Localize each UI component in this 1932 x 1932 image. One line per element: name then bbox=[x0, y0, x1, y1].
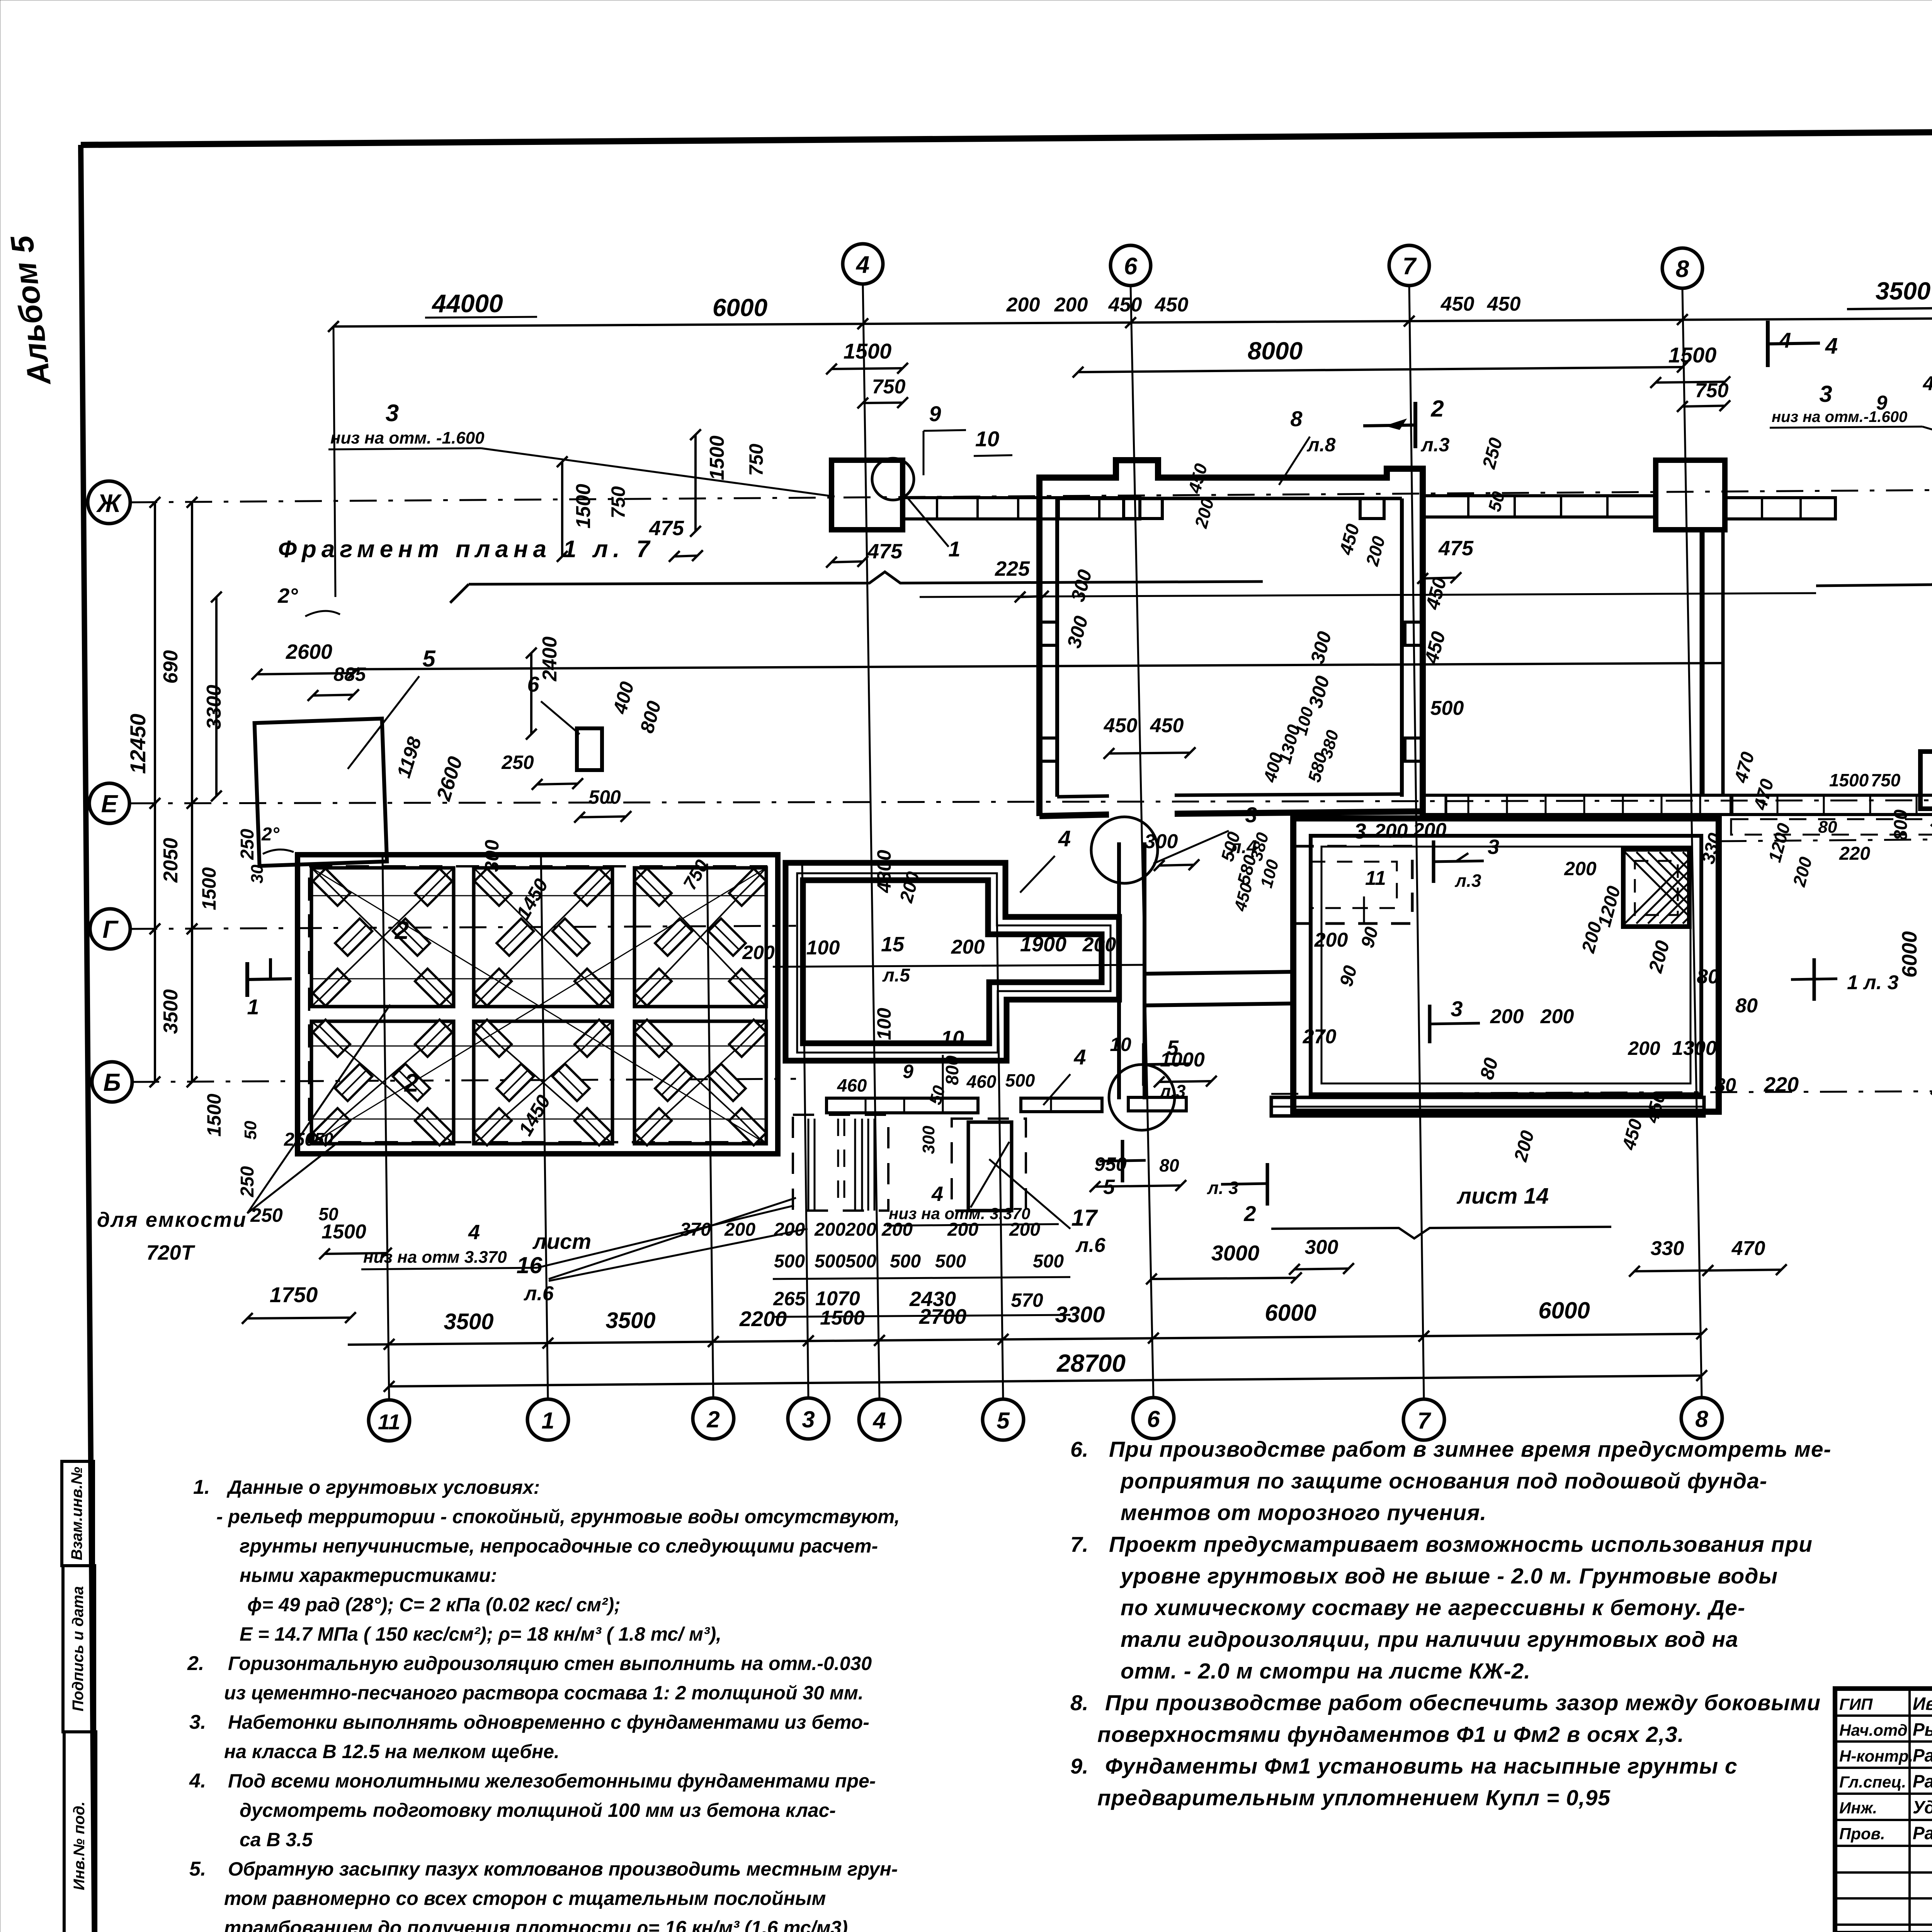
svg-text:поверхностями фундаментов Ф1 и: поверхностями фундаментов Ф1 и Фм2 в ося… bbox=[1097, 1722, 1684, 1747]
svg-text:9: 9 bbox=[1876, 392, 1888, 414]
axis 7 top bbox=[1389, 245, 1429, 286]
room C second inner thin bbox=[1321, 847, 1690, 1083]
axis line 8 bbox=[1682, 288, 1702, 1398]
thin pad axis lines across grid bbox=[311, 895, 766, 896]
axis line A bbox=[1271, 1091, 1932, 1094]
upper-right wall strip axes 7-8 bbox=[1423, 496, 1656, 517]
svg-text:трамбованием до получения пл: трамбованием до получения плотности ρ= 1… bbox=[224, 1917, 848, 1932]
axis 6 bottom bbox=[1133, 1398, 1174, 1439]
svg-text:роприятия по защите основан: роприятия по защите основания под подошв… bbox=[1120, 1469, 1767, 1493]
svg-text:3: 3 bbox=[1819, 381, 1832, 407]
svg-text:100: 100 bbox=[873, 1008, 895, 1040]
svg-text:1500: 1500 bbox=[572, 484, 595, 529]
svg-text:л.6: л.6 bbox=[1075, 1234, 1106, 1257]
svg-text:са В 3.5: са В 3.5 bbox=[240, 1829, 313, 1850]
svg-text:1300: 1300 bbox=[1672, 1037, 1717, 1060]
axis line B bbox=[132, 1079, 796, 1082]
svg-text:Рашевский: Рашевский bbox=[1913, 1823, 1932, 1843]
axis 6 top bbox=[1111, 245, 1151, 286]
room B inner thin border bbox=[797, 873, 1111, 1053]
svg-text:460: 460 bbox=[837, 1075, 867, 1095]
svg-text:1: 1 bbox=[948, 537, 960, 561]
svg-text:л. 3: л. 3 bbox=[1207, 1178, 1238, 1198]
room A (axes 6-7 big room) bbox=[1039, 460, 1423, 498]
svg-text:Набетонки выполнять одновремен: Набетонки выполнять одновременно с фунда… bbox=[228, 1711, 869, 1733]
svg-text:Гл.спец.: Гл.спец. bbox=[1839, 1773, 1906, 1791]
axis 1 bottom bbox=[527, 1399, 568, 1440]
svg-text:1750: 1750 bbox=[270, 1282, 318, 1307]
svg-text:1500: 1500 bbox=[1829, 770, 1869, 790]
svg-text:460: 460 bbox=[966, 1071, 997, 1092]
svg-text:5: 5 bbox=[422, 646, 436, 672]
svg-text:8: 8 bbox=[1695, 1406, 1708, 1432]
svg-text:При производстве работ в зимне: При производстве работ в зимнее время пр… bbox=[1109, 1437, 1832, 1462]
svg-text:2°: 2° bbox=[277, 584, 298, 607]
svg-text:6: 6 bbox=[527, 672, 539, 696]
svg-text:3: 3 bbox=[1451, 997, 1463, 1021]
svg-text:1.: 1. bbox=[193, 1476, 210, 1498]
strips between rooms A/C along E axis right part bbox=[1731, 795, 1932, 815]
svg-text:950: 950 bbox=[1094, 1153, 1127, 1175]
small pad detail 6 bbox=[577, 728, 602, 770]
svg-text:том равномерно со всех стор: том равномерно со всех сторон с тщательн… bbox=[224, 1888, 826, 1909]
room C outer walls bbox=[1293, 818, 1719, 1112]
svg-text:3000: 3000 bbox=[1211, 1241, 1260, 1265]
svg-text:690: 690 bbox=[160, 650, 182, 684]
svg-text:250: 250 bbox=[237, 829, 258, 860]
svg-text:л.3: л.3 bbox=[1159, 1081, 1186, 1101]
svg-text:из цементно-песчаного раствора: из цементно-песчаного раствора состава 1… bbox=[224, 1682, 864, 1704]
svg-text:- рельеф территории - спокойны: - рельеф территории - спокойный, грунтов… bbox=[216, 1506, 900, 1527]
svg-text:При производстве работ обеспеч: При производстве работ обеспечить зазор … bbox=[1105, 1690, 1821, 1715]
junction circle lower bbox=[1109, 1065, 1175, 1130]
axis line 7 bbox=[1409, 286, 1424, 1399]
svg-text:450: 450 bbox=[1487, 293, 1521, 315]
svg-text:16: 16 bbox=[517, 1252, 543, 1278]
section mark 5 bbox=[1142, 1043, 1146, 1086]
svg-text:50: 50 bbox=[315, 1129, 333, 1148]
svg-text:для емкости: для емкости bbox=[97, 1208, 247, 1231]
svg-text:Под всеми монолитными железобе: Под всеми монолитными железобетонными фу… bbox=[228, 1770, 876, 1792]
svg-text:на класса В 12.5 на мелком: на класса В 12.5 на мелком щебне. bbox=[224, 1741, 560, 1762]
top dimension line 44000/6000 bbox=[333, 316, 1932, 327]
svg-text:200: 200 bbox=[1082, 934, 1116, 956]
svg-text:7.: 7. bbox=[1070, 1532, 1088, 1556]
svg-text:2: 2 bbox=[1430, 396, 1444, 422]
axis B left bbox=[92, 1062, 132, 1102]
svg-text:4: 4 bbox=[1779, 328, 1791, 352]
svg-text:200: 200 bbox=[1540, 1005, 1574, 1028]
svg-text:3300: 3300 bbox=[203, 685, 225, 730]
svg-text:по химическому составу не а: по химическому составу не агрессивны к б… bbox=[1121, 1595, 1745, 1620]
svg-text:6: 6 bbox=[1124, 253, 1138, 280]
svg-text:80: 80 bbox=[1159, 1155, 1179, 1175]
tank foundation inner dashed rect bbox=[309, 866, 766, 1142]
axis 8 top bbox=[1662, 248, 1702, 288]
svg-text:2200: 2200 bbox=[739, 1307, 787, 1331]
svg-text:500: 500 bbox=[890, 1251, 921, 1272]
svg-text:Взам.инв.№: Взам.инв.№ bbox=[68, 1467, 85, 1560]
axis 4 bottom bbox=[859, 1399, 900, 1440]
svg-text:500: 500 bbox=[588, 786, 621, 808]
svg-text:Е = 14.7 МПа ( 150 кгс/см²);: Е = 14.7 МПа ( 150 кгс/см²); ρ= 18 кн/м³… bbox=[240, 1623, 721, 1645]
svg-text:450: 450 bbox=[1440, 293, 1475, 315]
svg-text:200: 200 bbox=[774, 1219, 805, 1240]
svg-text:ными характеристиками:: ными характеристиками: bbox=[240, 1565, 497, 1586]
hatched pad in room C bbox=[1623, 849, 1689, 927]
svg-text:Фрагмент плана 1 л. 7: Фрагмент плана 1 л. 7 bbox=[278, 536, 655, 563]
svg-text:200: 200 bbox=[1009, 1219, 1040, 1240]
svg-text:500: 500 bbox=[845, 1251, 876, 1272]
svg-text:4: 4 bbox=[872, 1408, 886, 1434]
svg-text:2: 2 bbox=[1243, 1201, 1256, 1226]
svg-text:11: 11 bbox=[378, 1410, 400, 1434]
svg-text:дусмотреть подготовку толщин: дусмотреть подготовку толщиной 100 мм из… bbox=[240, 1799, 836, 1821]
svg-text:Нач.отд: Нач.отд bbox=[1839, 1721, 1908, 1739]
svg-text:Рыбкина: Рыбкина bbox=[1913, 1719, 1932, 1740]
room A left wall bbox=[1036, 478, 1043, 816]
section mark 1 left bbox=[245, 962, 249, 997]
2 l.3 mark top (in room C) bbox=[1432, 840, 1435, 883]
svg-text:л.8: л.8 bbox=[1307, 434, 1336, 456]
svg-text:лист: лист bbox=[532, 1229, 591, 1253]
svg-text:4300: 4300 bbox=[873, 850, 895, 893]
svg-text:Б: Б bbox=[103, 1068, 121, 1096]
svg-text:5: 5 bbox=[997, 1408, 1010, 1434]
axis line 11 bbox=[383, 856, 389, 1400]
svg-text:200: 200 bbox=[845, 1219, 876, 1240]
svg-text:330: 330 bbox=[1651, 1237, 1684, 1260]
svg-text:3: 3 bbox=[1488, 835, 1499, 859]
svg-text:5.: 5. bbox=[189, 1858, 206, 1880]
svg-text:200: 200 bbox=[881, 1219, 913, 1240]
svg-text:200: 200 bbox=[814, 1219, 845, 1240]
axis G left bbox=[90, 909, 130, 949]
svg-text:3.: 3. bbox=[189, 1711, 206, 1733]
svg-text:200: 200 bbox=[1314, 929, 1348, 951]
svg-text:Удалова: Удалова bbox=[1913, 1797, 1932, 1817]
svg-text:Рашевский: Рашевский bbox=[1913, 1745, 1932, 1765]
svg-text:1500: 1500 bbox=[198, 867, 220, 910]
svg-text:570: 570 bbox=[1011, 1289, 1043, 1311]
svg-text:28700: 28700 bbox=[1056, 1349, 1126, 1377]
svg-text:450: 450 bbox=[1923, 372, 1932, 395]
svg-text:450: 450 bbox=[1155, 294, 1189, 316]
axis 3 bottom bbox=[788, 1398, 829, 1439]
2 l.3 section mark lower bbox=[1266, 1163, 1269, 1206]
svg-text:80: 80 bbox=[1818, 818, 1837, 837]
svg-text:9.: 9. bbox=[1070, 1754, 1088, 1778]
svg-text:6.: 6. bbox=[1070, 1437, 1088, 1461]
dim line through room B bbox=[773, 965, 1144, 967]
title block outline bbox=[1835, 1689, 1932, 1932]
long diagonal across grid bbox=[311, 868, 766, 1144]
svg-text:2700: 2700 bbox=[919, 1304, 967, 1328]
axis 4 top bbox=[843, 244, 883, 284]
svg-text:8.: 8. bbox=[1070, 1690, 1088, 1715]
svg-text:Пров.: Пров. bbox=[1839, 1825, 1885, 1843]
svg-text:100: 100 bbox=[806, 937, 840, 959]
axis line Zh bbox=[130, 490, 1932, 502]
axis 7 bottom bbox=[1403, 1399, 1444, 1440]
svg-text:3: 3 bbox=[386, 400, 399, 427]
svg-text:8: 8 bbox=[1290, 406, 1303, 431]
svg-text:10: 10 bbox=[975, 427, 999, 451]
svg-text:265: 265 bbox=[773, 1288, 806, 1310]
dim 475 below F1 bbox=[832, 561, 863, 562]
svg-text:450: 450 bbox=[1150, 714, 1184, 737]
svg-text:1500: 1500 bbox=[203, 1094, 225, 1136]
svg-text:3500: 3500 bbox=[160, 989, 182, 1034]
svg-text:200: 200 bbox=[742, 942, 775, 963]
svg-text:750: 750 bbox=[872, 376, 906, 398]
corridor wall horizontal to room C bbox=[1145, 972, 1293, 974]
room A bottom wall bbox=[1039, 815, 1109, 816]
fragment1 bracket line bbox=[469, 572, 1263, 584]
axis line 6 bbox=[1131, 286, 1153, 1398]
svg-text:750: 750 bbox=[607, 486, 629, 519]
svg-text:2400: 2400 bbox=[539, 636, 561, 682]
svg-text:750: 750 bbox=[745, 444, 767, 476]
svg-text:Ж: Ж bbox=[96, 489, 122, 517]
corridor wall vertical between junctions bbox=[1117, 842, 1121, 1099]
svg-text:4: 4 bbox=[855, 252, 869, 278]
axis E left bbox=[89, 783, 129, 823]
svg-text:9: 9 bbox=[903, 1061, 913, 1082]
svg-text:1500: 1500 bbox=[706, 435, 728, 480]
svg-text:750: 750 bbox=[1871, 770, 1901, 790]
svg-text:Рашевский: Рашевский bbox=[1913, 1771, 1932, 1791]
svg-text:Горизонтальную гидроизоляцию с: Горизонтальную гидроизоляцию стен выполн… bbox=[228, 1653, 872, 1674]
svg-text:500: 500 bbox=[1005, 1070, 1035, 1090]
svg-text:200: 200 bbox=[1006, 294, 1040, 316]
svg-text:уровне грунтовых вод не вы: уровне грунтовых вод не выше - 2.0 м. Гр… bbox=[1119, 1564, 1778, 1588]
svg-text:200: 200 bbox=[1628, 1037, 1660, 1059]
room A inner crenels bbox=[1124, 498, 1162, 519]
svg-text:250: 250 bbox=[250, 1204, 283, 1226]
svg-text:Е: Е bbox=[101, 790, 119, 818]
svg-text:500: 500 bbox=[1033, 1251, 1064, 1272]
svg-text:4: 4 bbox=[1058, 826, 1071, 851]
svg-text:300: 300 bbox=[1145, 830, 1178, 853]
svg-text:80: 80 bbox=[1735, 995, 1758, 1017]
svg-text:Н-контр.: Н-контр. bbox=[1839, 1747, 1913, 1765]
svg-text:л.3: л.3 bbox=[1455, 871, 1481, 891]
axis8 vertical wall below square bbox=[1700, 530, 1705, 795]
svg-text:225: 225 bbox=[995, 557, 1030, 580]
svg-text:220: 220 bbox=[1839, 844, 1870, 864]
axis line 2 bbox=[707, 864, 713, 1398]
svg-text:1000: 1000 bbox=[1160, 1049, 1205, 1071]
svg-text:500: 500 bbox=[774, 1251, 805, 1272]
junction circle node 1 bbox=[872, 458, 914, 500]
foundation F1 square axis4 bbox=[832, 460, 903, 530]
svg-text:1 л. 3: 1 л. 3 bbox=[1847, 971, 1899, 994]
svg-text:200: 200 bbox=[951, 936, 985, 958]
svg-text:6000: 6000 bbox=[1538, 1298, 1590, 1323]
svg-text:7: 7 bbox=[1417, 1408, 1431, 1434]
second fragment boundary line bbox=[920, 593, 1816, 597]
svg-text:8: 8 bbox=[1676, 256, 1689, 282]
svg-text:ментов от морозного пучения: ментов от морозного пучения. bbox=[1121, 1500, 1486, 1525]
svg-text:1500: 1500 bbox=[820, 1307, 865, 1329]
bottom strip below room C (A axis) bbox=[1271, 1097, 1704, 1116]
pile group right (17 l.6) bbox=[952, 1119, 1026, 1211]
axis line D bbox=[1719, 839, 1932, 841]
svg-text:7: 7 bbox=[1403, 253, 1417, 280]
dim 8000 bbox=[1078, 367, 1682, 372]
svg-text:9: 9 bbox=[929, 401, 941, 426]
svg-text:50: 50 bbox=[241, 1121, 260, 1139]
bottom chain spans bbox=[348, 1334, 1702, 1345]
svg-text:Проект предусматривает возможн: Проект предусматривает возможность испол… bbox=[1109, 1532, 1813, 1557]
svg-text:1900: 1900 bbox=[1020, 933, 1066, 956]
svg-text:6: 6 bbox=[1147, 1406, 1160, 1432]
strip axis4-6 bbox=[903, 498, 1140, 519]
svg-text:4: 4 bbox=[468, 1221, 480, 1244]
svg-text:3300: 3300 bbox=[1055, 1302, 1105, 1327]
svg-text:800: 800 bbox=[942, 1055, 962, 1085]
axis line 4 bbox=[863, 284, 879, 1399]
axis Zh left bbox=[88, 481, 130, 524]
left dim chain vertical lines bbox=[154, 502, 156, 1082]
svg-text:370: 370 bbox=[680, 1219, 711, 1240]
svg-text:885: 885 bbox=[333, 663, 366, 685]
svg-text:50: 50 bbox=[318, 1204, 338, 1224]
svg-text:л.6: л.6 bbox=[523, 1282, 554, 1305]
svg-text:Обратную засыпку пазух котлова: Обратную засыпку пазух котлованов произв… bbox=[228, 1858, 898, 1880]
svg-text:250: 250 bbox=[237, 1166, 258, 1197]
svg-text:80: 80 bbox=[1714, 1074, 1736, 1096]
svg-text:2050: 2050 bbox=[160, 838, 182, 883]
svg-text:2°: 2° bbox=[261, 824, 280, 845]
title block left signature grid bbox=[1835, 1714, 1932, 1717]
dim droppers bbox=[333, 327, 335, 597]
square pad on E axis right bbox=[1920, 752, 1932, 809]
svg-text:15: 15 bbox=[881, 933, 905, 956]
svg-text:л.3: л.3 bbox=[1421, 434, 1450, 456]
room C dashed sub-room bbox=[1294, 846, 1412, 923]
svg-text:4: 4 bbox=[931, 1182, 943, 1206]
svg-text:Данные о грунтовых условия: Данные о грунтовых условиях: bbox=[226, 1476, 540, 1498]
svg-text:3: 3 bbox=[1354, 819, 1366, 843]
svg-text:Инв.№ под.: Инв.№ под. bbox=[71, 1801, 88, 1890]
small dim lines for 500 row bbox=[773, 1277, 1070, 1279]
E axis strip between room A and room C bbox=[1423, 795, 1732, 815]
svg-text:отм. - 2.0 м смотри на лист: отм. - 2.0 м смотри на листе КЖ-2. bbox=[1121, 1659, 1531, 1684]
room B outline outer bbox=[786, 863, 1119, 1061]
leader to tank label bbox=[247, 1144, 336, 1213]
svg-text:720Т: 720Т bbox=[146, 1241, 195, 1264]
dashed pile cluster left bbox=[793, 1115, 888, 1211]
strip right of axis8 bbox=[1725, 498, 1835, 519]
svg-text:470: 470 bbox=[1731, 1237, 1765, 1260]
section mark 2 l.3 top bbox=[1413, 402, 1417, 448]
svg-text:80: 80 bbox=[1697, 966, 1719, 988]
axis line 5 bbox=[997, 912, 1003, 1399]
svg-text:500: 500 bbox=[935, 1251, 966, 1272]
svg-text:3: 3 bbox=[1245, 803, 1257, 827]
svg-text:475: 475 bbox=[1438, 537, 1474, 560]
svg-text:6000: 6000 bbox=[1898, 931, 1921, 978]
svg-text:3500: 3500 bbox=[1876, 277, 1930, 305]
svg-text:250: 250 bbox=[284, 1129, 315, 1150]
svg-text:6000: 6000 bbox=[1265, 1300, 1316, 1326]
svg-text:Подпись и дата: Подпись и дата bbox=[70, 1586, 87, 1711]
svg-text:200: 200 bbox=[1413, 819, 1447, 842]
svg-text:11: 11 bbox=[1365, 867, 1386, 889]
svg-text:1: 1 bbox=[247, 995, 259, 1019]
svg-text:750: 750 bbox=[1695, 379, 1729, 402]
svg-text:200: 200 bbox=[1490, 1005, 1524, 1028]
svg-text:300: 300 bbox=[1305, 1236, 1338, 1259]
svg-text:л.5: л.5 bbox=[882, 965, 910, 986]
foundation square axis 8 bbox=[1656, 460, 1725, 530]
svg-text:низ на отм. -1.600: низ на отм. -1.600 bbox=[330, 429, 485, 447]
svg-text:4: 4 bbox=[1825, 333, 1838, 359]
tank grid cells with X bracing and pads bbox=[311, 868, 454, 1007]
svg-text:17: 17 bbox=[1071, 1205, 1098, 1231]
axis 5 bottom bbox=[983, 1399, 1024, 1440]
svg-text:200: 200 bbox=[1374, 820, 1408, 842]
svg-text:500: 500 bbox=[815, 1251, 845, 1272]
room A right wall bbox=[1420, 469, 1426, 816]
svg-text:3: 3 bbox=[802, 1406, 815, 1432]
axis 2 bottom bbox=[693, 1398, 734, 1439]
svg-text:грунты непучинистые, непросадо: грунты непучинистые, непросадочные со сл… bbox=[240, 1535, 878, 1557]
svg-text:тали гидроизоляции, при нали: тали гидроизоляции, при наличии грунтовы… bbox=[1121, 1627, 1738, 1652]
svg-text:30: 30 bbox=[248, 864, 267, 883]
svg-text:низ на отм 3.370: низ на отм 3.370 bbox=[363, 1248, 507, 1267]
strips below room B bbox=[827, 1098, 978, 1113]
svg-text:лист 14: лист 14 bbox=[1456, 1184, 1549, 1209]
svg-text:450: 450 bbox=[1104, 714, 1138, 737]
svg-text:2: 2 bbox=[404, 1068, 419, 1097]
svg-text:8000: 8000 bbox=[1248, 337, 1303, 365]
axis line 1 bbox=[541, 856, 548, 1399]
svg-text:300: 300 bbox=[919, 1126, 938, 1154]
svg-text:10: 10 bbox=[941, 1027, 964, 1050]
axis 8 bottom bbox=[1681, 1398, 1722, 1439]
svg-text:1500: 1500 bbox=[844, 339, 892, 363]
svg-text:1500: 1500 bbox=[1668, 343, 1717, 367]
svg-text:ГИП: ГИП bbox=[1839, 1695, 1873, 1713]
tilted pit square detail 5 bbox=[255, 719, 387, 866]
svg-text:200: 200 bbox=[947, 1219, 978, 1240]
svg-text:220: 220 bbox=[1764, 1073, 1799, 1096]
svg-text:Г: Г bbox=[102, 915, 119, 943]
side stamp boxes bbox=[62, 1461, 94, 1566]
junction circle at E axis bbox=[1091, 817, 1158, 883]
svg-text:200: 200 bbox=[724, 1219, 755, 1240]
svg-text:Иванова: Иванова bbox=[1913, 1694, 1932, 1714]
svg-text:2.: 2. bbox=[187, 1652, 204, 1675]
svg-text:200: 200 bbox=[1564, 858, 1597, 879]
svg-text:270: 270 bbox=[1303, 1026, 1337, 1048]
axis line 3 bbox=[802, 864, 808, 1398]
svg-text:предварительным уплотнением: предварительным уплотнением Купл = 0,95 bbox=[1097, 1786, 1611, 1810]
axis line E bbox=[129, 800, 1932, 803]
svg-text:200: 200 bbox=[1054, 294, 1088, 316]
room B outline inner bbox=[803, 880, 1102, 1043]
dim 1500 over axis8 square bbox=[1656, 382, 1725, 383]
svg-text:л.4: л.4 bbox=[1229, 837, 1257, 857]
svg-text:3500: 3500 bbox=[605, 1308, 655, 1333]
svg-text:6000: 6000 bbox=[713, 294, 767, 321]
svg-text:12450: 12450 bbox=[126, 714, 150, 774]
dim 1500 axis4 bbox=[832, 368, 903, 369]
fragment2 bracket line bbox=[1816, 573, 1932, 586]
